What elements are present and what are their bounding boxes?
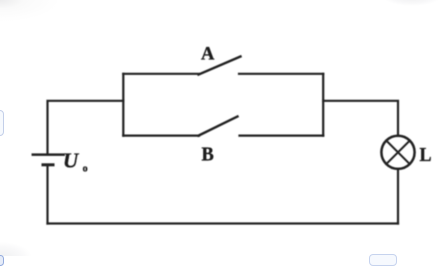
wire: bottom branch left segment bbox=[123, 135, 199, 137]
svg-text:A: A bbox=[201, 45, 215, 65]
wire: source bottom to return wire bbox=[46, 165, 48, 224]
lamp L cross stroke 2 bbox=[386, 141, 410, 165]
switch B lever bbox=[199, 117, 238, 136]
wire: right bar of parallel box bbox=[322, 74, 324, 136]
switch A lever bbox=[199, 57, 241, 75]
wire: bottom branch right segment bbox=[240, 135, 324, 137]
wire: top branch left segment bbox=[123, 73, 199, 75]
wire: right horizontal to lamp bbox=[323, 101, 398, 135]
battery U0 negative plate bbox=[43, 163, 53, 166]
lamp L circle bbox=[381, 136, 414, 169]
wire: lamp to bottom bbox=[397, 170, 399, 224]
wire: bottom return bbox=[48, 222, 399, 224]
lamp L cross stroke 1 bbox=[386, 141, 410, 165]
battery U0 positive plate bbox=[33, 153, 64, 156]
top-left corner shading bbox=[0, 0, 60, 22]
artifact: bottom-left blue corner fragment bbox=[0, 255, 4, 266]
artifact: left-edge blue button fragment bbox=[0, 110, 4, 136]
wire: top branch right segment bbox=[239, 73, 323, 75]
bottom-left corner shading bbox=[0, 242, 32, 266]
wire: top-left horizontal from source to parallel box bbox=[48, 101, 124, 154]
svg-text:B: B bbox=[202, 144, 214, 166]
svg-text:U: U bbox=[63, 149, 80, 173]
svg-text:o: o bbox=[83, 164, 88, 175]
artifact: bottom-center blue button top fragment bbox=[369, 254, 397, 266]
top-right edge shading bbox=[382, 0, 442, 6]
wire: left bar of parallel box bbox=[122, 74, 124, 136]
svg-text:L: L bbox=[420, 144, 432, 166]
